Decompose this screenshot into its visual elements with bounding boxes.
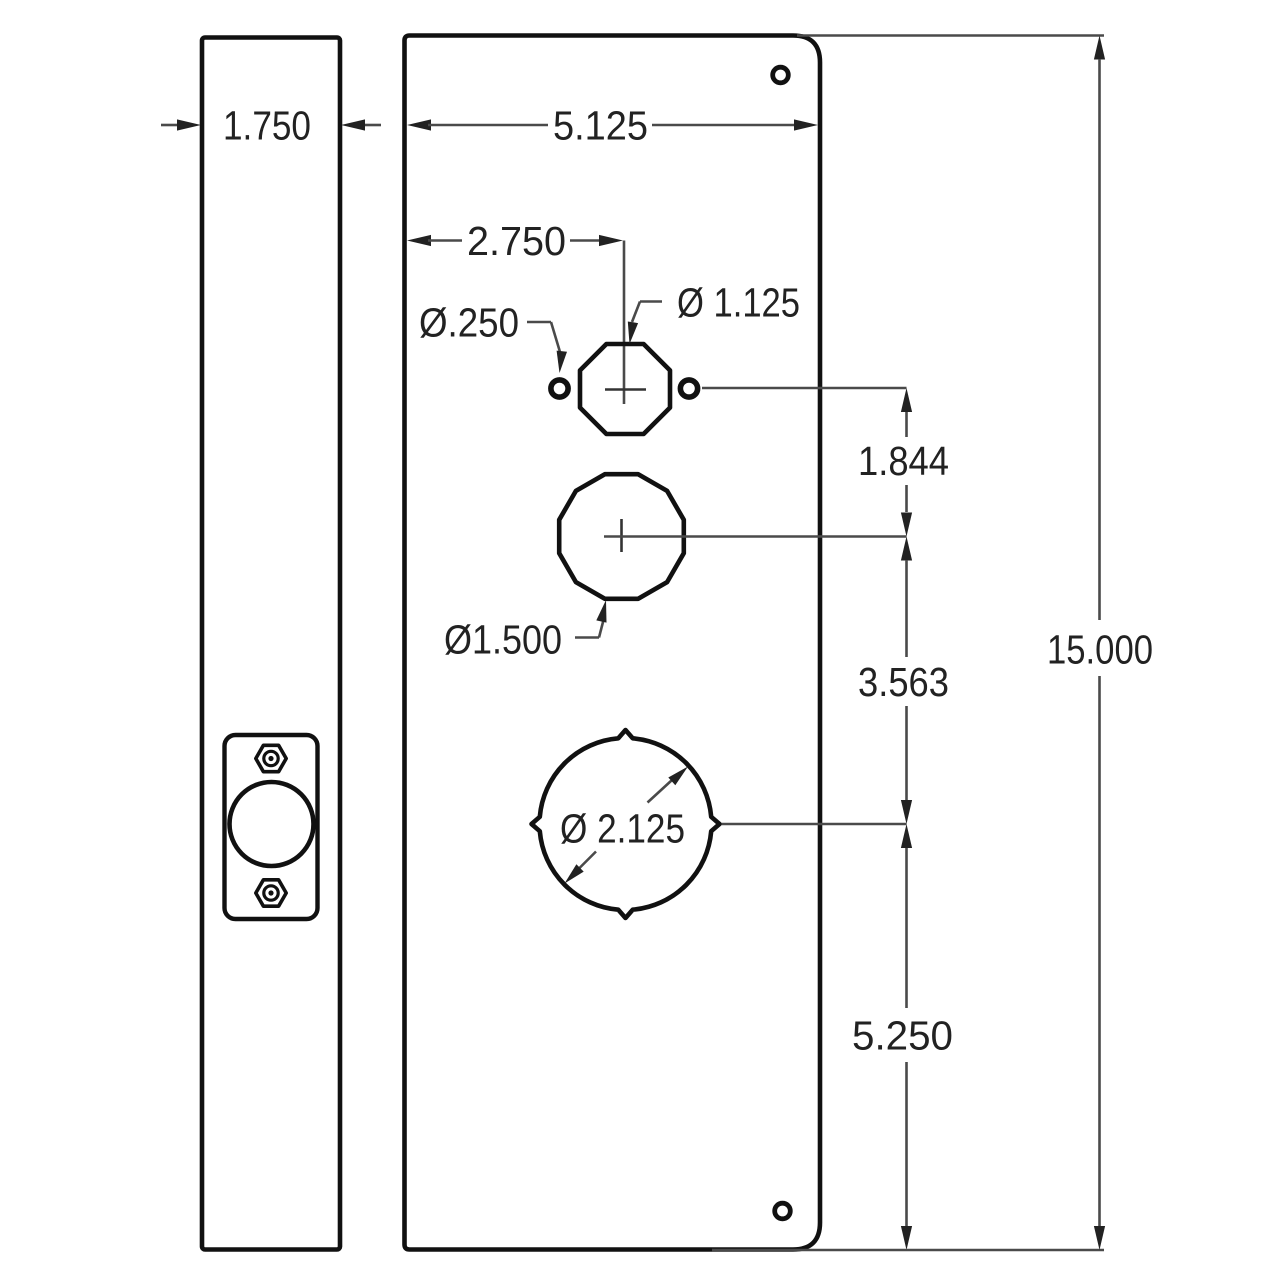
dimension 1.844 <box>901 388 912 412</box>
screw hole D.250 left <box>551 380 568 397</box>
rivet hole bottom right <box>775 1203 791 1219</box>
svg-text:Ø 2.125: Ø 2.125 <box>560 806 685 852</box>
screw hex nut bottom <box>256 880 286 906</box>
crosshair middle hole vertical tick <box>620 519 623 552</box>
dimension 5.250 <box>901 824 912 848</box>
extension line from D.250 right hole <box>702 387 907 390</box>
svg-text:Ø1.500: Ø1.500 <box>444 617 562 663</box>
bottom extension line <box>712 1249 1104 1252</box>
svg-text:Ø.250: Ø.250 <box>419 300 519 346</box>
lock bore hole D2.125 <box>532 730 720 918</box>
extension line from bore E point <box>722 823 907 826</box>
diameter arrow down-left <box>575 852 596 873</box>
crosshair top hole <box>605 388 646 391</box>
dimension 1.750 door thickness <box>161 124 177 127</box>
latch bore circle <box>230 782 314 866</box>
spindle hole D1.500 (12-gon) <box>559 474 684 599</box>
extension line from spindle hole center <box>604 535 907 538</box>
center leg from 2.750 to top hole center <box>623 241 626 405</box>
svg-text:5.250: 5.250 <box>852 1013 953 1059</box>
screw hole D.250 right <box>680 380 697 397</box>
svg-text:1.844: 1.844 <box>858 438 949 484</box>
dimension 2.750 hole offset <box>407 235 431 246</box>
door edge outline (side view) <box>202 38 340 1250</box>
svg-text:Ø 1.125: Ø 1.125 <box>677 280 800 326</box>
svg-text:2.750: 2.750 <box>467 218 566 264</box>
dimension 5.125 plate width <box>407 119 431 130</box>
svg-text:3.563: 3.563 <box>858 659 949 705</box>
wrap plate outline <box>405 36 821 1250</box>
diameter arrow up-right <box>648 775 679 803</box>
svg-text:5.125: 5.125 <box>553 103 648 149</box>
svg-text:1.750: 1.750 <box>223 103 311 149</box>
dimension 3.563 <box>901 537 912 561</box>
cylinder hole D1.125 (octagon) <box>580 344 670 434</box>
dimension 15.000 <box>1094 36 1105 60</box>
rivet hole top right <box>773 67 789 83</box>
screw hex nut top <box>256 745 286 771</box>
svg-text:15.000: 15.000 <box>1047 627 1153 673</box>
latch faceplate <box>225 735 318 919</box>
top extension line <box>797 34 1104 37</box>
